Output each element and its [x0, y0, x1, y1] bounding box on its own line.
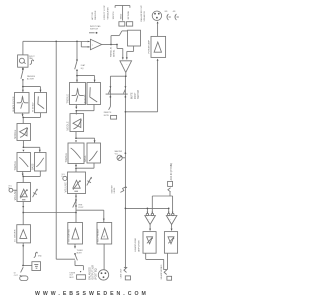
svg-text:PARALLEL: PARALLEL	[109, 46, 112, 57]
svg-text:PASSIVE: PASSIVE	[94, 10, 97, 20]
svg-text:PASSIVE: PASSIVE	[27, 75, 36, 78]
svg-text:8Ω: 8Ω	[165, 11, 168, 13]
svg-text:VOLUME: VOLUME	[14, 190, 17, 201]
svg-text:MASTER: MASTER	[115, 150, 123, 153]
svg-text:VOL: VOL	[115, 153, 119, 155]
svg-text:MIDDLE: MIDDLE	[14, 129, 17, 138]
svg-text:MUTE: MUTE	[77, 253, 83, 255]
svg-text:LINE OUT: LINE OUT	[120, 268, 122, 278]
svg-text:BALANCED: BALANCED	[89, 267, 92, 280]
svg-text:BRIGHT: BRIGHT	[84, 94, 87, 104]
svg-text:WWW.EBSSWEDEN.COM: WWW.EBSSWEDEN.COM	[35, 291, 149, 297]
svg-text:HEADPHONE: HEADPHONE	[134, 237, 137, 251]
svg-text:TREBLE: TREBLE	[65, 153, 68, 163]
svg-text:AMPLIFIER: AMPLIFIER	[138, 240, 141, 252]
svg-text:H.P. BUFFER: H.P. BUFFER	[69, 229, 71, 242]
svg-text:(POST EQ): (POST EQ)	[96, 268, 98, 280]
svg-text:SWITCH: SWITCH	[90, 28, 98, 30]
svg-text:FOOT: FOOT	[135, 92, 137, 99]
svg-text:MIDDLE: MIDDLE	[67, 121, 70, 130]
svg-text:MIC PREAMP: MIC PREAMP	[97, 228, 100, 242]
svg-text:VOLUME: VOLUME	[65, 182, 68, 193]
svg-text:SPEAKON: SPEAKON	[143, 11, 146, 22]
svg-text:MUTE: MUTE	[104, 115, 110, 117]
svg-text:REMOTE: REMOTE	[104, 112, 112, 114]
svg-text:OUTPUT XLR: OUTPUT XLR	[93, 265, 95, 280]
svg-text:BASS: BASS	[32, 163, 35, 170]
svg-text:ACTIVE: ACTIVE	[27, 78, 35, 81]
svg-text:HEADPHONES: HEADPHONES	[160, 264, 163, 279]
svg-text:D.I. DRIVER: D.I. DRIVER	[14, 229, 16, 242]
svg-text:TREBLE: TREBLE	[14, 161, 17, 171]
svg-text:SWITCH: SWITCH	[113, 11, 115, 19]
svg-text:MUTE: MUTE	[132, 92, 134, 99]
svg-text:AUX IN (3.5 MM): AUX IN (3.5 MM)	[170, 163, 173, 181]
svg-text:SEND: SEND	[120, 13, 122, 19]
svg-text:ACTIVE: ACTIVE	[91, 11, 94, 19]
svg-text:POST: POST	[78, 207, 84, 209]
svg-text:BASS: BASS	[84, 155, 87, 162]
svg-text:A: A	[103, 234, 105, 238]
svg-text:TREBLE: TREBLE	[66, 94, 69, 104]
svg-text:HI SHELF: HI SHELF	[33, 101, 35, 112]
svg-text:RETURN: RETURN	[128, 10, 130, 19]
svg-text:SERIAL/PAR: SERIAL/PAR	[107, 7, 110, 20]
svg-text:SHAPE FILTER: SHAPE FILTER	[12, 96, 15, 112]
svg-text:4Ω: 4Ω	[173, 11, 176, 13]
svg-text:MASTER: MASTER	[110, 185, 113, 194]
svg-text:LEVEL: LEVEL	[114, 187, 116, 193]
svg-text:SWITCH: SWITCH	[138, 90, 140, 99]
svg-text:POWER AMP: POWER AMP	[148, 39, 151, 53]
svg-text:BALANCED OUT: BALANCED OUT	[140, 5, 143, 22]
svg-text:EFFECT LOOP: EFFECT LOOP	[104, 4, 106, 19]
